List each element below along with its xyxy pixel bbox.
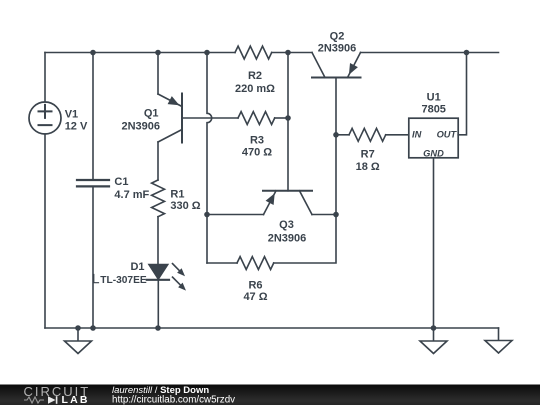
footer bar <box>0 385 540 405</box>
svg-text:2N3906: 2N3906 <box>268 232 307 244</box>
wire: R7 left lead <box>336 134 349 136</box>
transistor Q3 <box>263 190 312 192</box>
svg-text:2N3906: 2N3906 <box>318 42 357 54</box>
svg-text:V1: V1 <box>65 108 78 120</box>
wire: x207 down to R6 <box>206 215 208 264</box>
resistor R1 <box>152 180 165 217</box>
wire: R6 right lead up to x336 <box>274 215 336 264</box>
wire: R2 right to Q2 collector lead <box>272 52 312 54</box>
svg-text:4.7 mF: 4.7 mF <box>114 189 149 201</box>
wire: left vertical V1 bottom <box>44 134 46 328</box>
svg-text:12 V: 12 V <box>65 121 88 133</box>
svg-text:IN: IN <box>412 129 422 139</box>
svg-text:Q3: Q3 <box>279 219 294 231</box>
wire: vertical x288 from top rail to R3 <box>287 53 289 119</box>
wire: left vertical V1 top <box>44 53 46 103</box>
resistor R7 <box>349 128 386 141</box>
svg-text:R1: R1 <box>170 189 184 201</box>
wire: top rail right of Q2 <box>361 52 499 54</box>
wire: bottom rail <box>45 327 499 329</box>
svg-text:Q2: Q2 <box>330 31 345 43</box>
svg-text:U1: U1 <box>427 91 441 103</box>
ground symbol under U1 <box>433 328 435 341</box>
LED D1 <box>157 280 159 328</box>
svg-text:R2: R2 <box>248 70 262 82</box>
wire: Q2 base down to R7 junction and Q3 collector <box>335 78 337 215</box>
wire: Q3 base vertical <box>287 118 289 191</box>
wire: R7 right lead to U1 IN <box>386 134 409 136</box>
wire: R3 right lead <box>275 117 288 119</box>
resistor R3 <box>238 112 275 125</box>
wire: R6 left lead <box>207 262 237 264</box>
wire: C1 branch bottom <box>92 186 94 328</box>
wire: vertical x207 with hop over base wire <box>207 53 212 215</box>
voltage source V1 <box>29 102 61 134</box>
svg-text:D1: D1 <box>130 261 144 273</box>
wire: top rail from V1 to R2 <box>45 52 235 54</box>
capacitor C1 <box>77 180 109 186</box>
svg-text:2N3906: 2N3906 <box>121 120 160 132</box>
op-amp U1 box (7805 regulator) <box>409 118 458 158</box>
wire: Q3 collector to x336 <box>312 214 336 216</box>
svg-text:OUT: OUT <box>437 129 458 139</box>
svg-text:330 Ω: 330 Ω <box>170 200 200 212</box>
wire: U1 OUT to top rail <box>458 53 466 135</box>
CircuitLab logo resistor squiggle and diode icon <box>24 397 44 403</box>
resistor R6 <box>237 257 274 270</box>
svg-text:R3: R3 <box>250 134 264 146</box>
svg-text:C1: C1 <box>114 176 128 188</box>
wire: Q1 base to R3 <box>182 117 238 119</box>
wire: Q1 emitter vertical <box>157 53 159 95</box>
wire: U1 GND down to bottom rail <box>433 158 435 328</box>
svg-text:TL-307EE: TL-307EE <box>100 275 147 286</box>
ground symbol bottom right <box>498 328 500 341</box>
wire: R1 bottom to D1 anode <box>157 217 159 265</box>
transistor Q2 <box>312 77 361 79</box>
wire: Q3 emitter to x207 <box>207 214 264 216</box>
wire: C1 branch top <box>92 53 94 181</box>
svg-text:7805: 7805 <box>421 104 445 116</box>
svg-text:http://circuitlab.com/cw5rzdv: http://circuitlab.com/cw5rzdv <box>112 395 235 405</box>
label leader for TL-307EE <box>94 275 99 283</box>
svg-text:R7: R7 <box>361 149 375 161</box>
svg-text:GND: GND <box>423 148 444 158</box>
svg-text:220 mΩ: 220 mΩ <box>235 83 275 95</box>
svg-text:LAB: LAB <box>62 394 90 405</box>
transistor Q1 <box>181 94 183 143</box>
svg-text:47 Ω: 47 Ω <box>243 291 267 303</box>
wire: Q1 collector down to R1 <box>157 142 159 180</box>
resistor R2 <box>235 46 272 59</box>
svg-text:Q1: Q1 <box>144 108 159 120</box>
ground symbol left <box>77 328 79 341</box>
svg-text:R6: R6 <box>248 280 262 292</box>
svg-text:470 Ω: 470 Ω <box>242 147 272 159</box>
svg-text:18 Ω: 18 Ω <box>356 161 380 173</box>
